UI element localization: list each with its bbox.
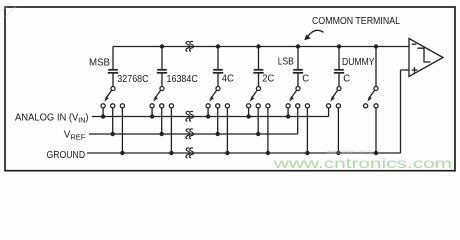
wire: S1 left contact to ANALOG IN rail	[101, 108, 105, 119]
svg-text:32768C: 32768C	[117, 73, 149, 85]
wire: S4 middle contact to VREF rail	[256, 108, 260, 136]
switch S4 for C4 (pivot, wiper arrow, contacts)	[247, 86, 271, 107]
svg-text:4C: 4C	[222, 73, 234, 85]
switch SB sampling switch (pivot, wiper arrow, contacts)	[364, 86, 379, 107]
svg-text:LSB: LSB	[278, 56, 294, 68]
capacitor C5 LSB	[293, 70, 303, 73]
node: bus junction / wire to capacitor C2	[160, 44, 164, 70]
wire: S4 right contact to GROUND rail	[266, 108, 270, 155]
wire: S2 right contact to GROUND rail	[169, 108, 173, 155]
wire: VREF rail	[89, 133, 298, 135]
wire: C1 MSB bottom plate to switch S1 pivot	[112, 73, 114, 87]
capacitor C1 MSB	[108, 70, 118, 73]
wire: top bus to sampling switch SB	[374, 44, 378, 86]
wire: S6 right contact to GROUND rail	[336, 108, 340, 155]
wire: S1 middle contact to VREF rail	[111, 108, 115, 136]
wire: C4 bottom plate to switch S4 pivot	[258, 73, 260, 87]
corner watermark fragment	[1, 2, 16, 17]
wire: S5 middle contact to VREF rail	[297, 108, 299, 134]
wire: S2 left contact to ANALOG IN rail	[150, 108, 154, 119]
capacitor C4	[253, 70, 263, 73]
wire: S4 left contact to ANALOG IN rail	[246, 108, 250, 119]
svg-text:16384C: 16384C	[167, 73, 199, 85]
op-amp U1 comparator	[409, 39, 443, 77]
wire break on VREF rail	[186, 129, 194, 139]
wire: S1 right contact to GROUND rail	[120, 108, 124, 155]
wire break on ANALOG IN rail	[186, 111, 194, 121]
node: bus junction / wire to capacitor C6 dummy	[337, 44, 341, 70]
node: bus junction / wire to capacitor C4	[256, 44, 260, 70]
wire: GROUND rail up to comparator + input	[401, 70, 410, 153]
svg-text:www.cntronics.com: www.cntronics.com	[273, 155, 452, 171]
wire break on GROUND rail	[186, 148, 194, 158]
wire: C6 dummy bottom plate to switch S6 pivot	[338, 73, 340, 87]
wire: C3 bottom plate to switch S3 pivot	[217, 73, 219, 87]
node: bus junction / wire to capacitor C3	[216, 44, 220, 70]
wire: common-terminal top bus	[113, 46, 409, 48]
wire: S3 right contact to GROUND rail	[225, 108, 229, 155]
wire: S3 middle contact to VREF rail	[216, 108, 220, 136]
svg-text:MSB: MSB	[89, 57, 110, 69]
wire: S2 middle contact to VREF rail	[160, 108, 164, 136]
switch S3 for C3 (pivot, wiper arrow, contacts)	[206, 86, 229, 107]
wire: S3 left contact to ANALOG IN rail	[206, 108, 210, 119]
wire: SB right contact to GROUND rail	[374, 108, 378, 155]
wire: ANALOG IN rail	[92, 116, 329, 118]
svg-text:GROUND: GROUND	[47, 150, 86, 161]
node: bus junction / wire to capacitor C5 LSB	[296, 44, 300, 70]
capacitor C3	[213, 70, 223, 73]
switch S2 for C2 (pivot, wiper arrow, contacts)	[150, 86, 173, 107]
capacitor C2	[157, 70, 167, 73]
wire: S5 left contact to ANALOG IN rail	[286, 108, 290, 119]
node: bus junction / wire to capacitor C1 MSB	[112, 47, 114, 70]
wire: GROUND rail	[87, 152, 401, 154]
wire: C5 LSB bottom plate to switch S5 pivot	[297, 73, 299, 87]
switch S1 for C1 MSB (pivot, wiper arrow, contacts)	[101, 86, 125, 107]
capacitor C6 dummy	[334, 70, 344, 73]
svg-text:ANALOG IN (VIN): ANALOG IN (VIN)	[15, 113, 89, 125]
svg-text:C: C	[343, 73, 350, 85]
svg-text:www.cntronics.com cn: www.cntronics.com cn	[326, 150, 372, 156]
svg-text:DUMMY: DUMMY	[342, 56, 375, 68]
svg-text:2C: 2C	[262, 73, 274, 85]
arrow from COMMON TERMINAL to top bus	[304, 30, 323, 40]
border frame	[5, 7, 455, 171]
wire: C2 bottom plate to switch S2 pivot	[161, 73, 163, 87]
svg-text:C: C	[302, 73, 309, 85]
svg-text:COMMON TERMINAL: COMMON TERMINAL	[312, 15, 400, 27]
wire break on top bus	[186, 41, 194, 51]
switch S6 for C6 dummy (pivot, wiper arrow, contacts)	[327, 86, 342, 107]
switch S5 for C5 LSB (pivot, wiper arrow, contacts)	[286, 86, 310, 107]
wire: S6 left contact up from ANALOG IN rail end	[328, 108, 330, 117]
wire: S5 right contact to GROUND rail	[305, 108, 309, 155]
